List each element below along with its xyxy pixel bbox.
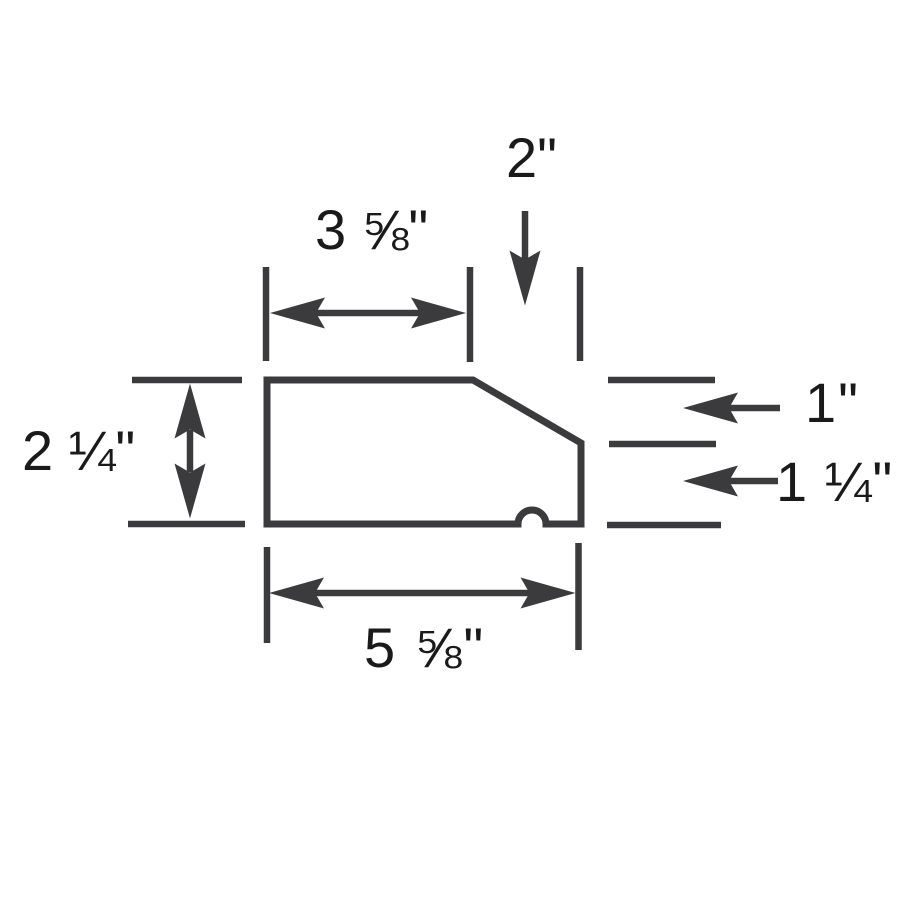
- svg-text:1 ¼": 1 ¼": [776, 450, 893, 513]
- dimension arrow, top horizontal double-headed (3 5/8"): [270, 298, 466, 329]
- extension tick, top-right vertical (x=580): [577, 267, 584, 361]
- extension dash, right middle (y=444): [609, 441, 716, 448]
- extension dash, right top (y=380): [608, 377, 715, 384]
- extension tick, top-middle vertical (x=470): [467, 267, 474, 362]
- svg-text:2 ¼": 2 ¼": [22, 419, 135, 482]
- extension tick, bottom-right vertical (x=578.5): [575, 543, 582, 650]
- dimension arrow, bottom horizontal double-headed (5 5/8"): [269, 578, 576, 609]
- dimension arrow, right upper pointing left (1"): [683, 393, 780, 424]
- extension dash, left bottom (y=524): [128, 521, 245, 528]
- dimension arrow, left vertical double-headed (2 1/4"): [175, 384, 206, 519]
- svg-text:3 ⅝": 3 ⅝": [315, 198, 428, 261]
- extension dash, right bottom (y=525): [607, 522, 721, 529]
- extension tick, bottom-left vertical (x=267): [264, 547, 271, 643]
- dimension arrow, right lower pointing left (1 1/4"): [683, 466, 778, 497]
- extension dash, left top (y=380): [132, 377, 242, 384]
- svg-text:5 ⅝": 5 ⅝": [364, 616, 485, 679]
- svg-text:1": 1": [805, 371, 860, 434]
- svg-text:2": 2": [506, 126, 557, 189]
- extension tick, top-left vertical (x=266): [263, 267, 270, 361]
- profile outline (moulding cross-section with chamfer and drip notch): [267, 380, 581, 524]
- dimension arrow, top vertical pointing down (2"): [510, 211, 541, 306]
